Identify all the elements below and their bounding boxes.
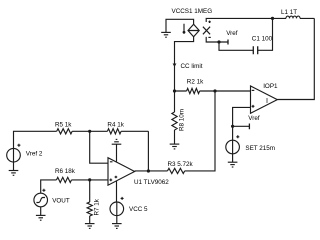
svg-text:L1 1T: L1 1T	[281, 9, 297, 16]
svg-text:U1 TLV9062: U1 TLV9062	[134, 179, 169, 186]
svg-text:R2 1k: R2 1k	[187, 79, 204, 86]
svg-text:VOUT: VOUT	[52, 197, 70, 204]
svg-text:IOP1: IOP1	[263, 83, 278, 90]
svg-text:CC limit: CC limit	[181, 63, 203, 70]
svg-text:R5 1k: R5 1k	[55, 121, 72, 128]
svg-text:R7 1k: R7 1k	[94, 198, 101, 215]
svg-text:C1 100: C1 100	[252, 36, 273, 43]
svg-text:R4 1k: R4 1k	[107, 121, 124, 128]
svg-text:I: I	[266, 96, 268, 105]
svg-text:R3 5.72k: R3 5.72k	[168, 161, 194, 168]
svg-text:SET 215m: SET 215m	[245, 145, 275, 152]
svg-text:Vref: Vref	[248, 115, 260, 122]
svg-text:Vref 2: Vref 2	[26, 151, 43, 158]
svg-text:R6 18k: R6 18k	[55, 168, 76, 175]
svg-text:VCCS1 1MEG: VCCS1 1MEG	[172, 8, 213, 15]
svg-text:VCC 5: VCC 5	[129, 206, 148, 213]
svg-text:Vref: Vref	[226, 30, 238, 37]
svg-text:R8 10m: R8 10m	[179, 109, 186, 131]
